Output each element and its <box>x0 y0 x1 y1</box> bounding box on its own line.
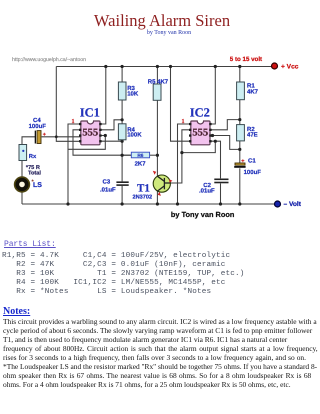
svg-text:R1: R1 <box>247 83 255 90</box>
node Vcc terminal <box>272 63 278 69</box>
svg-text:.01uF: .01uF <box>199 187 215 194</box>
wire T1 collector to ground <box>156 192 158 205</box>
wire C3 to ground <box>121 186 123 204</box>
wire IC1 pin3 output <box>100 135 106 137</box>
node top rail junctions <box>104 65 107 68</box>
transistor Q T1 2N3702 <box>153 171 173 196</box>
svg-text:by Tony van Roon: by Tony van Roon <box>171 210 235 219</box>
resistor R1 <box>237 82 245 100</box>
svg-text:R5 4K7: R5 4K7 <box>148 78 169 85</box>
svg-text:1: 1 <box>72 119 75 125</box>
wire C4 right to IC1 pin <box>42 136 81 138</box>
wire LS to ground <box>21 192 23 205</box>
wire R2 bottom to C1 <box>239 141 241 164</box>
wire IC2 under-box loop <box>182 141 215 152</box>
svg-text:+: + <box>43 132 46 138</box>
wire IC1 pin8 to rail <box>100 67 106 125</box>
svg-text:– Volt: – Volt <box>284 201 302 208</box>
svg-text:+ Vcc: + Vcc <box>281 64 299 71</box>
op-amp U IC1 555 body <box>79 121 102 145</box>
wire R1 top drop <box>239 67 241 83</box>
wire IC1 pin2 loop to R6 <box>73 130 131 155</box>
svg-text:Total: Total <box>28 170 41 177</box>
svg-text:100K: 100K <box>127 132 142 139</box>
svg-text:10K: 10K <box>127 90 139 97</box>
svg-text:IC1: IC1 <box>80 105 100 119</box>
wire IC2 pin8 to rail <box>210 67 216 125</box>
svg-text:5 to 15 volt: 5 to 15 volt <box>230 56 262 63</box>
wire bottom rail ground <box>22 203 275 205</box>
wire C3 node down to C3 <box>121 155 123 181</box>
svg-text:1: 1 <box>182 119 185 125</box>
wire top rail V+ <box>56 66 271 68</box>
wire R1 bottom to R2 top <box>239 100 241 125</box>
resistor R6 <box>131 152 149 159</box>
svg-text:555: 555 <box>192 127 208 138</box>
svg-text:IC2: IC2 <box>190 105 210 119</box>
svg-text:2N3702: 2N3702 <box>133 194 153 200</box>
loudspeaker LS <box>15 177 30 192</box>
svg-text:2K7: 2K7 <box>135 161 147 168</box>
resistor R4 <box>118 124 126 140</box>
node bottom rail junctions <box>66 202 69 205</box>
wire IC1 pin1 to ground <box>68 124 81 204</box>
wire C4 left <box>22 137 36 145</box>
capacitor C2 plates <box>214 179 228 182</box>
svg-text:C3: C3 <box>103 179 111 186</box>
resistor Rx <box>19 145 27 161</box>
wire R6 right <box>150 154 158 156</box>
wire IC1 under-box loop <box>68 136 105 150</box>
wire IC1 pin to R4 bottom <box>100 140 122 142</box>
wire R3 top drop <box>121 67 123 83</box>
svg-text:100uF: 100uF <box>244 169 262 176</box>
resistor R5 <box>153 84 161 100</box>
svg-text:LS: LS <box>33 182 42 189</box>
svg-text:http://www.uoguelph.ca/~antoon: http://www.uoguelph.ca/~antoon <box>12 57 86 63</box>
wire C1 to ground <box>239 168 241 204</box>
wire T1 base to IC2 <box>164 130 190 183</box>
svg-text:555: 555 <box>82 127 98 138</box>
wire R6 left <box>122 154 131 156</box>
svg-text:Rx: Rx <box>29 154 37 160</box>
wire C2 to ground <box>220 183 222 204</box>
svg-text:100uF: 100uF <box>29 123 47 130</box>
wire R5 bottom to T1 emitter <box>156 100 158 176</box>
svg-text:C1: C1 <box>248 157 256 164</box>
wire R4 bottom to C3 node <box>121 140 123 155</box>
svg-text:+: + <box>241 159 244 165</box>
capacitor C3 plates <box>116 182 128 185</box>
wire left V+ drop to IC1 <box>56 67 81 142</box>
capacitor C4 electrolytic plates <box>35 131 46 144</box>
node mid junctions <box>55 135 58 138</box>
op-amp U IC2 555 body <box>189 121 212 145</box>
svg-text:.01uF: .01uF <box>100 187 116 194</box>
svg-text:R6: R6 <box>137 153 143 159</box>
wire IC2 pin4 reset from rail <box>171 67 191 142</box>
wire IC2 pin6 to R2 bottom node <box>210 136 240 150</box>
svg-text:T1: T1 <box>137 182 150 194</box>
wire Rx to LS <box>21 161 23 178</box>
wire R5 top drop <box>156 67 158 85</box>
wire IC2 pin3 to C2 <box>210 141 221 178</box>
resistor R2 <box>237 125 245 141</box>
node -Volt terminal <box>275 201 281 207</box>
resistor R3 <box>118 82 126 100</box>
svg-text:4K7: 4K7 <box>247 89 259 96</box>
wire R3 bottom to R4 <box>121 100 123 124</box>
wire IC1 pin7 to R3/R4 node <box>100 120 122 130</box>
capacitor C1 electrolytic plates <box>234 159 245 168</box>
wire IC2 pin1 to ground <box>178 124 191 204</box>
svg-text:47E: 47E <box>247 132 258 139</box>
wire IC2 pin7 to R1/R2 node <box>210 120 240 130</box>
